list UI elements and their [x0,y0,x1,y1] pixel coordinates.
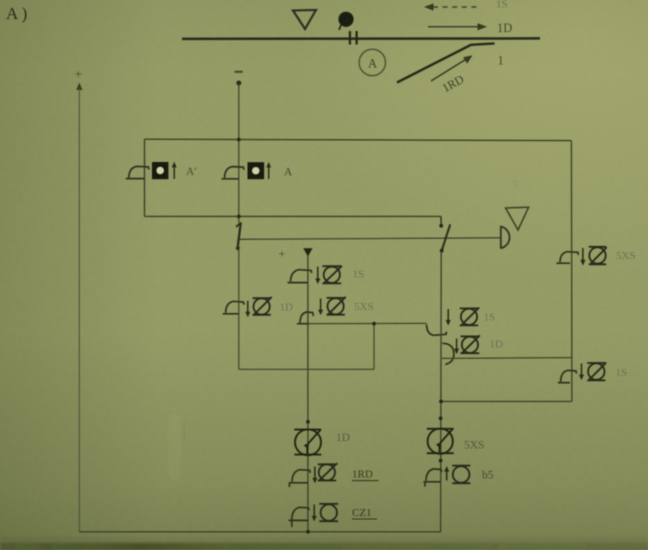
node bottom rail x mid rail [306,530,310,534]
coil 1S (right rail, lower) hook [558,370,577,382]
coil CZ1 arrow down [313,505,315,518]
coil 5XS(mid) arrow down [320,299,322,312]
node above 5XS meter [439,416,443,420]
relay A' hook contact [126,166,149,178]
coil 1D (right mid) bulge hook [442,343,454,364]
dashed arrow left, label 1S [433,6,481,8]
node above 1D meter [306,420,310,424]
track line (top rail) [182,37,540,40]
meter 5XS (big circle) [427,429,454,454]
wire: U bottom [239,368,374,370]
coil 5XS (right rail, upper) hook [557,252,579,264]
coil 1S (right rail) circle [587,363,606,381]
node below 5XS meter [439,459,443,463]
coil 1D (right mid) arrow down [456,339,458,351]
branch wire to bell [240,238,501,240]
coil 1D circle [253,297,272,315]
coil 5XS circle [589,247,607,264]
coil 1D arrow down [247,301,249,314]
coil 1S (right rail) arrow down [581,364,583,377]
relay A' arrow [173,166,175,179]
solid arrow right, label 1D [428,26,479,28]
relay A hook contact [222,167,245,179]
bell (D shape) [501,226,510,249]
faint scratch [183,423,186,441]
relay A' coil (square) [152,162,168,179]
coil 1S circle [322,266,342,284]
coil 5XS arrow down [582,248,584,262]
coil CZ1 circle (plain) [319,504,338,521]
right rail (down from box corner) [570,141,573,402]
relay A arrow [268,166,270,179]
mid rail (from feed down) [307,256,309,532]
coil 5XS (mid) hook [297,312,313,324]
coil 1D (left, on minus rail) hook [223,301,244,314]
circled A [359,49,385,75]
coil b5 hook [423,469,441,487]
wire 1D branch to right rail [442,357,572,360]
ramp arrow [431,58,468,81]
coil 1D (right mid) circle [461,335,480,353]
coil 1S (right mid) dip hook [427,324,447,335]
coil CZ1 hook [289,507,310,527]
minus rail lower [238,249,240,370]
wire right rail bottom to mid [441,400,572,402]
gradient / ramp line [397,43,495,82]
node: box top x minus rail [237,138,241,142]
node at right-mid rail [439,400,443,404]
coil b5 arrow up [446,470,448,481]
paper noise [0,0,1,1]
minus rail upper [238,85,240,223]
relay box [145,139,572,140]
signal triangle (open, down) [293,10,316,29]
wire right-mid rail [440,252,443,532]
wire mid cross [308,322,427,324]
balloon (filled circle) [338,12,353,27]
insulated joint ticks [349,31,351,45]
wire: U right up [373,324,375,370]
coil 1S (mid) hook [288,270,312,283]
minus terminal [235,71,243,73]
coil 1S arrow down [317,267,319,281]
meter 1D (big circle) [294,429,321,455]
coil 1RD hook [289,470,310,487]
bell triangle [506,207,529,230]
coil b5 circle (plain) [452,466,470,484]
coil 1S (right mid) circle [460,308,479,326]
bottom rail [79,531,441,533]
contact 1 (closed, on minus rail) [238,223,241,249]
node: box bottom x minus rail [237,215,241,219]
coil 5XS(mid) circle [327,297,346,315]
left rail (+) [78,89,80,532]
pale smudge streak [168,414,181,480]
contact 5 (open, diagonal) [440,216,442,224]
relay A coil (square) [248,162,265,179]
bottom scanner band [0,534,648,550]
coil 1RD circle [318,463,337,480]
coil 1RD arrow down [314,467,316,480]
coil 1S (right mid) arrow down [447,309,449,322]
node on mid cross [372,322,376,326]
